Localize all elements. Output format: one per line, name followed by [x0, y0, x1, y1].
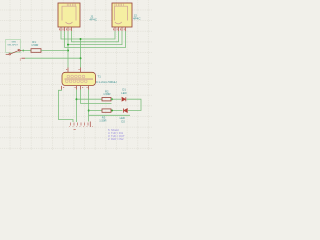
- svg-text:D2: D2: [121, 119, 125, 123]
- svg-text:LED: LED: [121, 91, 126, 95]
- wire bus line 4: [65, 31, 126, 47]
- T1 core lines: [65, 79, 94, 80]
- lower pin stub: [21, 57, 25, 59]
- switch pin number 1: [18, 48, 20, 50]
- junction row2: [88, 110, 90, 112]
- switch pin number 2: [9, 52, 11, 54]
- junction wire 58: [80, 57, 82, 59]
- wire bus line 2: [72, 31, 119, 42]
- bottom connector pin stubs: [71, 123, 89, 126]
- bottom connector pin numbers: [69, 126, 93, 128]
- svg-text:4P4C: 4P4C: [133, 17, 141, 21]
- svg-text:LED: LED: [120, 116, 125, 120]
- svg-text:T1: T1: [98, 75, 102, 79]
- wire bus line 1: [61, 31, 115, 39]
- LED D2: [124, 109, 128, 113]
- svg-text:SW1: SW1: [12, 41, 18, 43]
- wire vertical to transformer pin 2: [80, 39, 82, 68]
- wire J1 pin3 vertical to transformer: [67, 31, 69, 68]
- switch SW1 highlight box: [6, 39, 21, 52]
- junction after R2: [111, 98, 113, 100]
- wire to R3: [89, 110, 103, 112]
- wire T1 pin left down path: [59, 90, 74, 123]
- junction row1: [76, 98, 78, 100]
- resistor R2: [102, 98, 111, 101]
- wire lower to transformer: [25, 57, 81, 59]
- svg-text:SW_SPDT: SW_SPDT: [7, 44, 18, 46]
- junction bus1: [80, 38, 82, 40]
- LED D1: [122, 97, 126, 101]
- wire T1 to R3 vertical: [88, 90, 90, 122]
- T1 primary winding circles: [67, 75, 85, 78]
- wire T1 pin to mid line: [81, 90, 112, 104]
- connector J1 body: [58, 3, 80, 27]
- svg-text:1.50R: 1.50R: [103, 92, 110, 96]
- svg-text:1.50R: 1.50R: [31, 43, 38, 47]
- J1 pin numbers: [60, 28, 71, 30]
- J1 latch cup: [66, 22, 73, 24]
- stub wire mid row: [89, 114, 130, 116]
- T1 top pin stubs: [68, 68, 81, 73]
- wire switch to R1: [22, 50, 31, 52]
- J1 contact comb: [67, 4, 75, 6]
- J1 pin stubs: [61, 28, 72, 32]
- J2 inner jack outline: [115, 6, 128, 20]
- connector J2 body: [112, 3, 132, 27]
- switch SW1 symbol: [6, 50, 22, 55]
- svg-text:0.1 ohms 500uH: 0.1 ohms 500uH: [96, 80, 117, 84]
- wire T1 to R2 vertical: [76, 90, 78, 123]
- wire to R2: [77, 98, 103, 100]
- resistor R3: [102, 109, 111, 112]
- svg-text:2: RxD = IN2: 2: RxD = IN2: [108, 137, 124, 141]
- wire R2 to D1: [111, 98, 121, 100]
- T1 bottom pin stubs: [62, 86, 89, 90]
- bottom connector long stub: [89, 122, 91, 128]
- J2 contact comb: [115, 4, 124, 6]
- wire D1 right: [127, 99, 142, 110]
- T1 bottom pin numbers: [63, 87, 88, 89]
- junction before D2: [111, 110, 113, 112]
- svg-text:4P4C: 4P4C: [89, 18, 97, 22]
- svg-text:D1: D1: [122, 88, 126, 92]
- wire bus line 3: [68, 31, 122, 45]
- J2 latch cup: [115, 22, 122, 24]
- J2 pin stubs: [115, 28, 126, 32]
- resistor R1: [31, 49, 41, 53]
- transformer T1 body: [62, 72, 96, 85]
- junction on bus3: [67, 44, 69, 46]
- wire D2 to R3: [112, 110, 123, 112]
- T1 secondary winding circles: [66, 80, 88, 83]
- J1 inner jack outline: [62, 6, 76, 20]
- wire R1 to junction: [41, 50, 68, 52]
- T1 top pin numbers: [66, 69, 80, 71]
- J2 pin numbers: [114, 28, 125, 30]
- svg-text:1.50R: 1.50R: [99, 119, 106, 123]
- bottom connector ref speck: [74, 129, 76, 131]
- junction at switch output: [22, 50, 24, 52]
- junction R1 wire: [67, 50, 69, 52]
- background canvas: [0, 0, 152, 150]
